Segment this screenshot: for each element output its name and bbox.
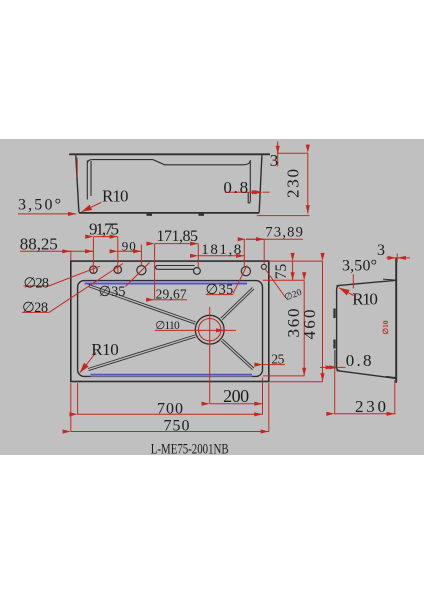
svg-text:29,67: 29,67	[156, 286, 187, 301]
svg-text:230: 230	[355, 397, 386, 416]
svg-text:0.8: 0.8	[223, 178, 248, 197]
svg-text:3,50°: 3,50°	[18, 197, 61, 214]
svg-text:700: 700	[157, 401, 183, 418]
svg-text:∅10: ∅10	[381, 320, 390, 334]
svg-text:∅28: ∅28	[22, 300, 48, 316]
svg-text:75: 75	[273, 264, 290, 280]
svg-text:230: 230	[283, 169, 302, 198]
svg-text:R10: R10	[352, 290, 378, 309]
svg-text:25: 25	[271, 351, 284, 366]
svg-text:R10: R10	[91, 340, 119, 359]
svg-text:181,8: 181,8	[201, 242, 241, 258]
svg-text:R10: R10	[102, 186, 129, 205]
svg-text:460: 460	[300, 310, 319, 340]
svg-text:90: 90	[122, 238, 136, 253]
svg-text:3: 3	[270, 151, 279, 170]
svg-text:88,25: 88,25	[20, 235, 58, 254]
svg-text:171,85: 171,85	[157, 228, 199, 245]
svg-text:200: 200	[223, 386, 249, 406]
svg-text:∅35: ∅35	[99, 284, 126, 300]
svg-text:0.8: 0.8	[346, 351, 372, 370]
svg-text:3,50°: 3,50°	[342, 257, 377, 274]
svg-text:∅28: ∅28	[24, 276, 50, 292]
svg-text:∅35: ∅35	[206, 282, 234, 298]
svg-text:73,89: 73,89	[265, 225, 303, 241]
svg-text:∅110: ∅110	[155, 320, 180, 332]
svg-text:L-ME75-2001NB: L-ME75-2001NB	[151, 441, 229, 457]
svg-text:750: 750	[164, 417, 190, 434]
svg-text:3: 3	[377, 242, 385, 259]
svg-text:91,75: 91,75	[89, 220, 119, 239]
